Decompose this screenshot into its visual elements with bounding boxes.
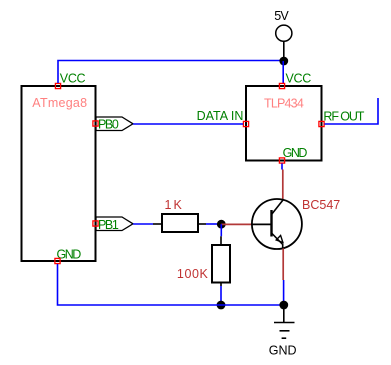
- resistor R2 100K body: [212, 245, 230, 283]
- transistor Q1 emitter line: [272, 233, 283, 248]
- wire base junction down to R2: [220, 224, 222, 236]
- IC U2 TLP434 body: [246, 86, 322, 161]
- svg-text:ATmega8: ATmega8: [32, 96, 87, 110]
- pin marker RF OUT: [319, 121, 324, 126]
- svg-text:PB1: PB1: [98, 218, 119, 232]
- port PB0 symbol: [96, 117, 133, 131]
- svg-text:GND: GND: [283, 146, 308, 160]
- wire RF OUT antenna stub: [325, 98, 379, 124]
- pin marker GND (ATmega8): [55, 258, 60, 263]
- pin stub R2 top: [220, 236, 222, 245]
- wire VCC net: ATmega8 VCC up and right to 5V junction: [58, 61, 284, 84]
- transistor Q1 collector line: [272, 200, 284, 215]
- wire R1 to base junction: [206, 223, 221, 225]
- svg-text:RF OUT: RF OUT: [323, 110, 364, 124]
- resistor R1 1K body: [162, 214, 198, 232]
- svg-text:VCC: VCC: [286, 72, 312, 86]
- pin stub transistor base (red): [221, 223, 252, 225]
- pin marker PB0: [93, 121, 98, 126]
- wire junction to ground symbol: [283, 305, 285, 323]
- wire TLP434 GND pin short blue stub: [281, 164, 283, 170]
- svg-text:100K: 100K: [177, 267, 209, 281]
- svg-text:GND: GND: [269, 344, 297, 358]
- pin stub transistor collector (red): [282, 170, 284, 201]
- pin stub R2 bottom: [220, 283, 222, 287]
- svg-text:TLP434: TLP434: [264, 96, 304, 110]
- svg-text:VCC: VCC: [60, 72, 86, 86]
- svg-text:5V: 5V: [274, 9, 289, 23]
- wire 5V junction down to TLP434 VCC: [282, 61, 284, 84]
- pin stub R1 left: [153, 223, 162, 225]
- junction R2/ground rail: [217, 301, 226, 310]
- junction base node: [217, 220, 226, 229]
- pin stub R1 right: [198, 223, 206, 225]
- pin marker DATA IN: [243, 121, 248, 126]
- wire from 5V terminal down: [283, 41, 285, 61]
- pin marker VCC (ATmega8): [55, 83, 60, 88]
- junction emitter/ground rail: [279, 301, 288, 310]
- pin marker VCC (TLP434): [279, 83, 284, 88]
- pin marker GND (TLP434): [279, 158, 284, 163]
- wire ATmega8 GND down and right (ground rail): [58, 264, 284, 305]
- pin marker PB1: [93, 221, 98, 226]
- IC U1 ATmega8 body: [22, 86, 96, 261]
- ground symbol bar 1: [274, 322, 295, 324]
- svg-text:DATA IN: DATA IN: [197, 109, 244, 123]
- power terminal 5V circle: [276, 25, 292, 41]
- transistor Q1 base bar: [270, 210, 272, 237]
- transistor Q1 base line: [252, 223, 271, 225]
- wire PB0 to DATA IN: [133, 123, 243, 125]
- svg-text:1K: 1K: [165, 198, 184, 212]
- transistor Q1 emitter arrow: [276, 235, 283, 242]
- wire emitter to ground rail: [283, 280, 285, 305]
- wire PB1 to R1: [133, 223, 153, 225]
- ground symbol bar 2: [280, 330, 290, 332]
- junction at 5V node: [279, 57, 288, 66]
- port PB1 symbol: [96, 217, 133, 231]
- pin stub transistor emitter (red): [282, 248, 284, 280]
- svg-text:PB0: PB0: [98, 118, 119, 132]
- svg-text:BC547: BC547: [302, 198, 340, 212]
- transistor Q1 BC547 circle: [252, 199, 302, 249]
- ground symbol bar 3: [282, 337, 287, 339]
- wire R2 bottom to ground rail: [220, 286, 222, 305]
